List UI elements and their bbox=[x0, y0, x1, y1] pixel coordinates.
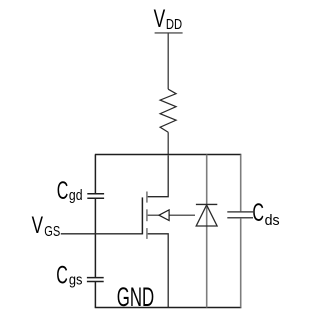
diode D1 triangle bbox=[196, 205, 217, 226]
wire VGS to gate bbox=[61, 233, 143, 235]
label Cds bbox=[252, 199, 279, 229]
wire source stub bbox=[148, 234, 169, 308]
transistor Q1 channel segment source bbox=[146, 228, 148, 239]
svg-text:DD: DD bbox=[166, 17, 182, 33]
label Cgd bbox=[57, 177, 83, 205]
wire right rail upper (top to Cds) bbox=[240, 155, 242, 212]
transistor Q1 body arrow bbox=[159, 210, 169, 221]
svg-text:V: V bbox=[32, 212, 43, 239]
capacitor Cgd plates bbox=[87, 193, 104, 195]
diode D1 cathode bar bbox=[196, 203, 217, 205]
label Cgs bbox=[56, 262, 82, 290]
wire left rail upper (top to Cgd) bbox=[94, 155, 96, 194]
resistor R1 bbox=[160, 89, 176, 132]
VDD terminal bar bbox=[155, 32, 183, 34]
svg-text:gs: gs bbox=[69, 272, 83, 288]
wire VDD bar to resistor bbox=[167, 33, 169, 89]
wire drain stub bbox=[148, 155, 169, 197]
node VDD label bbox=[154, 5, 182, 33]
wire left rail middle (Cgd to Cgs) bbox=[94, 199, 96, 278]
wire right rail lower (Cds to bottom) bbox=[240, 218, 242, 307]
capacitor Cds plates bbox=[227, 211, 253, 213]
svg-text:ds: ds bbox=[265, 213, 280, 229]
capacitor Cgs plates bbox=[87, 277, 104, 279]
svg-text:V: V bbox=[154, 5, 166, 33]
diode D1 wire bbox=[206, 155, 208, 308]
wire top rail bbox=[95, 154, 241, 156]
wire left rail lower (Cgs to bottom) bbox=[94, 282, 96, 308]
svg-text:C: C bbox=[56, 262, 68, 290]
label VGS bbox=[32, 212, 61, 240]
svg-text:GND: GND bbox=[117, 282, 154, 312]
svg-text:C: C bbox=[57, 177, 69, 205]
wire body to diode bbox=[148, 214, 195, 216]
svg-text:C: C bbox=[252, 199, 264, 227]
svg-text:gd: gd bbox=[69, 188, 83, 204]
wire bottom rail GND bbox=[95, 307, 242, 309]
transistor Q1 channel segment drain bbox=[146, 192, 148, 203]
wire resistor to box top bbox=[167, 132, 169, 154]
transistor Q1 gate bar bbox=[141, 197, 143, 234]
transistor Q1 channel segment body bbox=[146, 209, 148, 221]
svg-text:GS: GS bbox=[44, 224, 60, 240]
